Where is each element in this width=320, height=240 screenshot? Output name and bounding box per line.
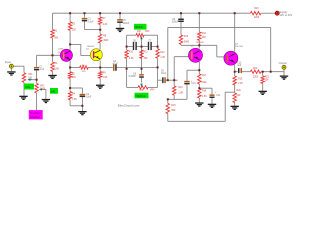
svg-text:1500: 1500 [201,82,207,84]
svg-text:R17: R17 [202,75,207,77]
svg-text:R21: R21 [265,76,270,78]
svg-text:2.2K: 2.2K [103,24,108,26]
svg-text:BASS: BASS [135,25,143,29]
svg-text:15K: 15K [72,29,77,31]
svg-text:15K: 15K [265,80,270,82]
svg-text:ElecCircuit.com: ElecCircuit.com [118,103,140,107]
svg-text:10uF: 10uF [161,73,167,75]
svg-text:.1uF: .1uF [237,65,242,67]
svg-text:R15: R15 [171,105,176,107]
svg-text:2.2K: 2.2K [238,83,243,85]
svg-text:10K: 10K [137,31,142,33]
svg-text:0.0082: 0.0082 [129,76,137,78]
svg-text:220uF: 220uF [172,21,179,23]
svg-text:VR3: VR3 [145,31,150,33]
svg-text:R13: R13 [184,36,189,38]
svg-text:3900: 3900 [184,42,190,44]
svg-text:220uF: 220uF [123,23,130,25]
svg-text:1.5K: 1.5K [103,77,108,79]
svg-text:R14: R14 [202,33,207,35]
svg-text:R11: R11 [144,52,149,54]
svg-text:2SC945: 2SC945 [235,46,244,48]
svg-text:R19: R19 [238,78,243,80]
svg-text:3.3K: 3.3K [129,58,134,60]
svg-text:C945: C945 [58,48,64,50]
svg-text:VR1: VR1 [28,74,33,76]
svg-text:C11: C11 [216,95,221,97]
svg-text:R18: R18 [202,91,207,93]
svg-text:1.3K: 1.3K [160,57,165,59]
svg-text:10K: 10K [28,77,33,79]
svg-text:VOL: VOL [25,85,31,89]
svg-text:2200: 2200 [253,76,259,78]
svg-text:2200: 2200 [254,17,260,19]
svg-text:R23: R23 [254,8,259,10]
svg-text:R16: R16 [178,87,183,89]
svg-text:3.3uF: 3.3uF [88,21,94,23]
svg-text:10uF: 10uF [86,97,92,99]
svg-text:VR2: VR2 [40,85,45,87]
svg-text:R10: R10 [129,52,134,54]
svg-text:1.5K: 1.5K [72,99,77,101]
svg-text:10K: 10K [139,90,144,92]
svg-text:R12: R12 [160,52,165,54]
svg-text:BAL: BAL [51,89,56,93]
svg-text:Output: Output [279,61,288,65]
svg-text:Input: Input [5,60,11,64]
svg-text:56K: 56K [54,38,59,40]
svg-text:channel: channel [30,115,40,119]
svg-text:5.6K: 5.6K [54,69,59,71]
svg-text:100K: 100K [40,89,46,91]
svg-text:.1uF: .1uF [40,69,45,71]
svg-text:33K: 33K [144,58,149,60]
svg-text:R20: R20 [237,90,242,92]
svg-text:.47uF: .47uF [112,63,118,65]
svg-text:3900: 3900 [103,40,109,42]
svg-text:2SC945: 2SC945 [196,42,205,44]
svg-text:C10: C10 [191,83,196,85]
svg-text:R22: R22 [253,68,258,70]
svg-text:VR4: VR4 [150,89,155,91]
svg-text:1.5K: 1.5K [202,96,207,98]
svg-text:To other: To other [30,111,40,115]
svg-text:TREBLE: TREBLE [135,94,146,98]
svg-text:1.8K: 1.8K [178,92,183,94]
svg-text:2SB561: 2SB561 [87,46,96,48]
svg-text:12V to 24V: 12V to 24V [279,13,292,17]
